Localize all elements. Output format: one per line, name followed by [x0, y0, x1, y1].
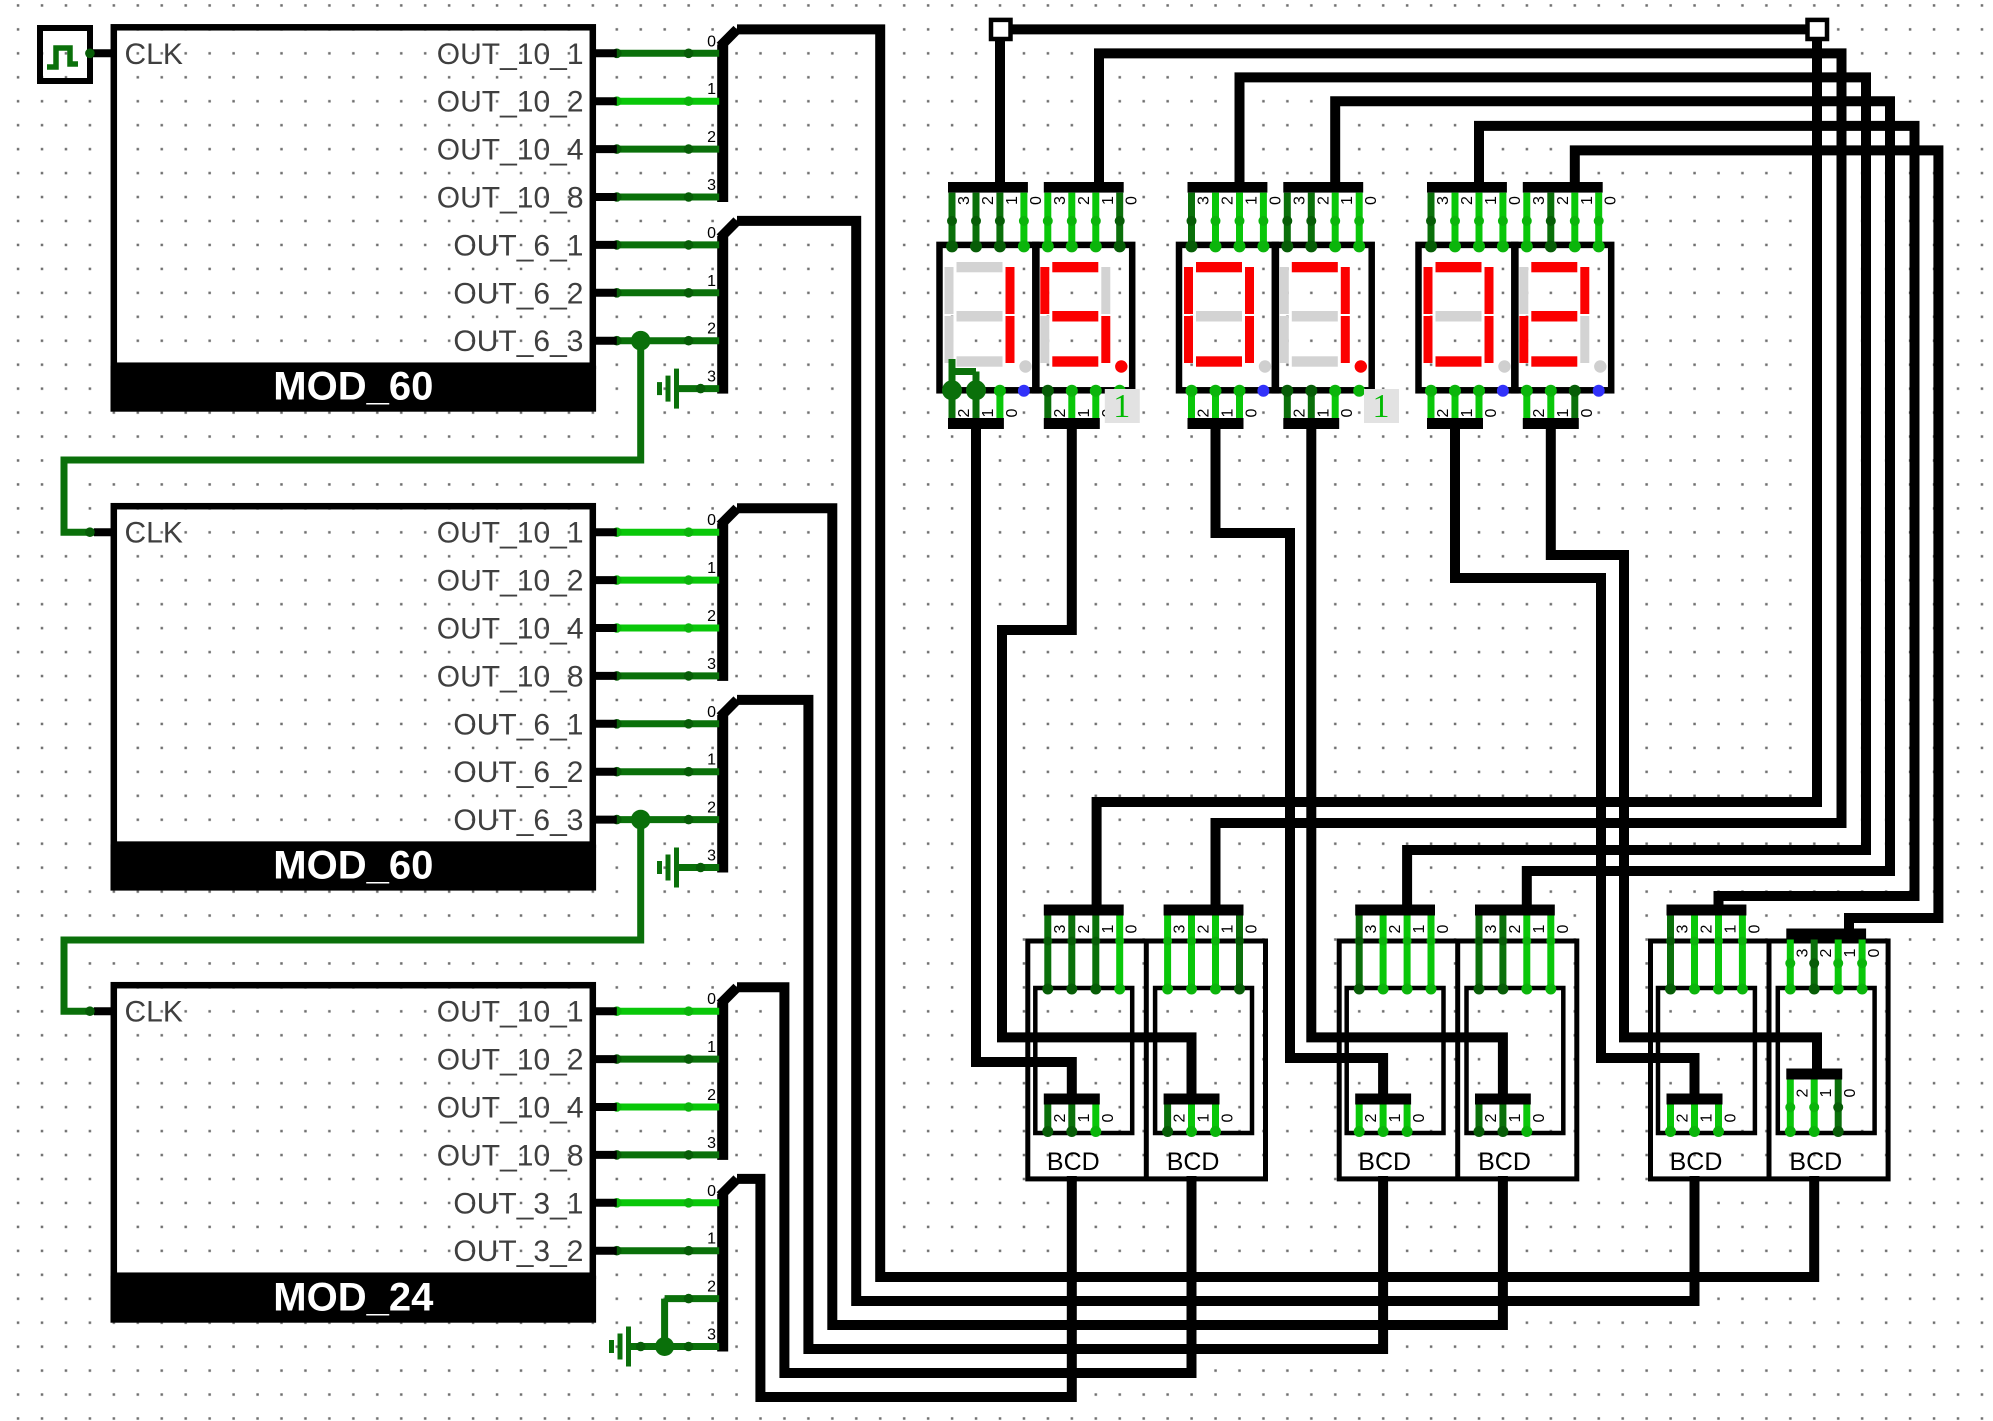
svg-text:2: 2: [1172, 1113, 1189, 1122]
svg-text:1: 1: [1373, 388, 1390, 425]
wire: black CLK stub box3: [94, 1007, 114, 1015]
segment F: [1280, 267, 1289, 314]
bus wire: display DS5 top bar to BCD cell5 top bar: [1479, 126, 1915, 905]
wire: tap 1 into splitter: [617, 1247, 719, 1254]
svg-text:3: 3: [707, 1327, 716, 1344]
wire: DS6 top pin 1: [1571, 193, 1578, 247]
svg-text:0: 0: [1603, 196, 1620, 205]
segment D: [1531, 356, 1577, 366]
wire: BCD2 output bit 1: [1188, 1105, 1195, 1133]
svg-text:2: 2: [980, 196, 997, 205]
wire: DS6 top pin 0: [1595, 193, 1602, 247]
splitter DS4 top input bar: [1283, 182, 1363, 193]
svg-text:2: 2: [1052, 408, 1069, 417]
wire: DS1 bottom pin 2: [949, 388, 956, 418]
svg-text:BCD: BCD: [1167, 1148, 1220, 1176]
wire: DS6 bottom pin 1: [1547, 388, 1554, 418]
junction: DS1 bottom pin 1: [966, 380, 986, 400]
svg-text:BCD: BCD: [1358, 1148, 1411, 1176]
segment B: [1101, 267, 1110, 314]
BCD decoder block pair 3 outline: [1651, 941, 1889, 1179]
svg-text:1: 1: [1842, 948, 1859, 957]
bus wire: splitter S2 (seconds tens) to BCD cell 5 stub: [737, 221, 1695, 1301]
svg-text:2: 2: [707, 129, 716, 146]
splitter DS3 top input bar: [1188, 182, 1268, 193]
wire: BCD6 output bit 2: [1787, 1080, 1794, 1133]
wire: DS1 top pin 3: [949, 193, 956, 247]
segment D: [1196, 356, 1242, 366]
svg-text:OUT_10_2: OUT_10_2: [437, 565, 584, 598]
svg-text:0: 0: [1004, 408, 1021, 417]
svg-text:3: 3: [1483, 924, 1500, 933]
pin stub OUT_10_8: [593, 193, 617, 201]
svg-text:OUT_6_2: OUT_6_2: [453, 756, 583, 789]
wire: MOD_60 #2 OUT_6_3 feedback to MOD_24 CLK: [64, 820, 641, 1012]
wire: BCD5 output bit 1: [1691, 1105, 1698, 1133]
pin stub OUT_10_1: [593, 528, 617, 536]
svg-text:0: 0: [1435, 924, 1452, 933]
wire: tap 0 into splitter: [617, 1008, 719, 1015]
decimal point: [1355, 360, 1367, 372]
svg-text:OUT_6_2: OUT_6_2: [453, 277, 583, 310]
junction: OUT_6_3 node box2: [631, 810, 651, 830]
wire: BCD5 input bit 0: [1739, 916, 1746, 991]
segment B: [1341, 267, 1350, 314]
svg-text:OUT_10_1: OUT_10_1: [437, 996, 584, 1029]
wire: DS5 top pin 3: [1428, 193, 1435, 247]
wire: BCD5 input bit 1: [1715, 916, 1722, 991]
svg-text:1: 1: [1483, 196, 1500, 205]
wire: tap 0 into splitter: [617, 529, 719, 536]
pin stub OUT_6_2: [593, 289, 617, 297]
svg-text:1: 1: [1113, 388, 1130, 425]
splitter DS1 top input bar: [948, 182, 1028, 193]
splitter DS5 top input bar: [1427, 182, 1507, 193]
wire: DS3 top pin 2: [1212, 193, 1219, 247]
splitter DS3 bottom input bar: [1188, 418, 1244, 429]
svg-text:0: 0: [1028, 196, 1045, 205]
wire: DS1 common pins tie: [952, 359, 976, 390]
svg-text:BCD: BCD: [1047, 1148, 1100, 1176]
ground (splitter S4 tap3): [679, 864, 719, 871]
svg-text:OUT_3_1: OUT_3_1: [453, 1187, 583, 1220]
splitter BCD6 top bar: [1786, 929, 1866, 940]
svg-text:2: 2: [1483, 1113, 1500, 1122]
svg-text:1: 1: [1220, 408, 1237, 417]
wire: DS3 bottom pin 1: [1212, 388, 1219, 418]
pin dot: DS4 decimal point input: [1353, 385, 1365, 397]
pin stub OUT_10_8: [593, 672, 617, 680]
svg-text:2: 2: [1387, 924, 1404, 933]
svg-text:1: 1: [1100, 196, 1117, 205]
ground (splitter S2 tap3): [679, 385, 719, 392]
wire: DS6 top pin 2: [1547, 193, 1554, 247]
decimal point: [1259, 360, 1271, 372]
wire: tap 1 into splitter: [617, 289, 719, 296]
wire: BCD4 output bit 0: [1523, 1105, 1530, 1133]
svg-text:0: 0: [1842, 1088, 1859, 1097]
segment F: [1424, 267, 1433, 314]
pin stub OUT_10_2: [593, 576, 617, 584]
svg-text:2: 2: [1363, 1113, 1380, 1122]
7-seg display DS3 (digit 0): [1179, 245, 1276, 390]
svg-text:2: 2: [707, 1279, 716, 1296]
svg-text:0: 0: [1555, 924, 1572, 933]
svg-text:3: 3: [707, 369, 716, 386]
splitter BCD4 top bar: [1475, 905, 1555, 916]
segment G: [1436, 311, 1482, 322]
wire: DS5 bottom pin 2: [1428, 388, 1435, 418]
clock generator CLK1: [40, 28, 90, 81]
svg-text:2: 2: [1076, 196, 1093, 205]
7-seg display DS2 (digit 5): [1035, 245, 1132, 390]
svg-text:2: 2: [1196, 924, 1213, 933]
bus wire: splitter S3 (minutes ones) to BCD cell 4 stub: [737, 508, 1503, 1325]
wire: BCD3 input bit 2: [1380, 916, 1387, 991]
svg-text:0: 0: [1339, 408, 1356, 417]
splitter S3 (MOD_60 #2 OUT_10 bits): [717, 523, 728, 681]
BCD decoder block pair 2 outline: [1339, 941, 1577, 1179]
7-seg display DS5 (digit 0): [1419, 245, 1516, 390]
svg-text:OUT_10_2: OUT_10_2: [437, 86, 584, 119]
segment A: [1531, 262, 1577, 272]
segment F: [945, 267, 954, 314]
svg-text:OUT_10_1: OUT_10_1: [437, 517, 584, 550]
svg-text:2: 2: [1531, 408, 1548, 417]
splitter S5 (MOD_24 OUT_10 bits): [717, 1002, 728, 1160]
wire: tap 3 into splitter: [617, 1151, 719, 1158]
svg-text:BCD: BCD: [1478, 1148, 1531, 1176]
svg-text:2: 2: [1818, 948, 1835, 957]
svg-text:1: 1: [1818, 1088, 1835, 1097]
wire: DS1 top pin 1: [996, 193, 1003, 247]
wire: clock output to MOD_60 #1 CLK pin: [88, 49, 114, 57]
svg-text:2: 2: [1699, 924, 1716, 933]
wire: DS2 bottom pin 1: [1068, 388, 1075, 418]
wire: BCD5 input bit 3: [1667, 916, 1674, 991]
segment F: [1184, 267, 1193, 314]
svg-text:1: 1: [1531, 924, 1548, 933]
segment D: [1052, 356, 1098, 366]
svg-text:1: 1: [1076, 1113, 1093, 1122]
wire: BCD6 input bit 3: [1787, 940, 1794, 991]
segment G: [957, 311, 1003, 322]
svg-text:OUT_6_3: OUT_6_3: [453, 804, 583, 837]
bus wire: display DS1 bottom bar down to BCD cell1 output bar: [976, 429, 1072, 1094]
segment G: [1196, 311, 1242, 322]
svg-text:1: 1: [1339, 196, 1356, 205]
value label 1 (DS2 dp net): [1105, 389, 1140, 423]
pin stub OUT_6_3: [593, 337, 617, 345]
bus wire: display DS6 top bar to BCD cell6 top bar: [1575, 150, 1939, 928]
splitter BCD6 output bar: [1786, 1069, 1842, 1080]
svg-text:OUT_10_1: OUT_10_1: [437, 38, 584, 71]
bus wire: display DS2 top bar to BCD cell2 top bar: [1099, 53, 1842, 904]
wire: DS6 bottom pin 0: [1571, 388, 1578, 418]
segment B: [1485, 267, 1494, 314]
pin dot: DS6 decimal point input: [1593, 385, 1605, 397]
svg-text:2: 2: [1220, 196, 1237, 205]
segment C: [1580, 316, 1589, 363]
wire: BCD1 input bit 2: [1068, 916, 1075, 991]
svg-text:0: 0: [1723, 1113, 1740, 1122]
bus wire: tunnel square A to tunnel square B along top edge: [1010, 24, 1808, 34]
module U1 MOD_60 (seconds counter): [114, 27, 593, 365]
svg-text:0: 0: [1746, 924, 1763, 933]
wire: BCD3 input bit 0: [1428, 916, 1435, 991]
svg-text:0: 0: [707, 512, 716, 529]
wire: tap 0 into splitter: [617, 50, 719, 57]
svg-text:OUT_6_3: OUT_6_3: [453, 325, 583, 358]
wire: DS3 bottom pin 2: [1188, 388, 1195, 418]
tunnel square A: [991, 20, 1011, 39]
segment G: [1052, 311, 1098, 322]
svg-text:0: 0: [1531, 1113, 1548, 1122]
svg-text:OUT_6_1: OUT_6_1: [453, 708, 583, 741]
wire: BCD3 input bit 3: [1356, 916, 1363, 991]
svg-text:1: 1: [1004, 196, 1021, 205]
svg-text:3: 3: [1291, 196, 1308, 205]
pin stub OUT_10_2: [593, 97, 617, 105]
BCD cell 5 inner box: [1658, 988, 1755, 1133]
svg-text:CLK: CLK: [125, 38, 183, 71]
svg-text:1: 1: [1411, 924, 1428, 933]
segment C: [1341, 316, 1350, 363]
pin stub OUT_10_1: [593, 49, 617, 57]
wire: BCD2 input bit 0: [1236, 916, 1243, 991]
wire: DS5 top pin 1: [1476, 193, 1483, 247]
wire: BCD4 output bit 1: [1499, 1105, 1506, 1133]
segment C: [1006, 316, 1015, 363]
svg-text:CLK: CLK: [125, 517, 183, 550]
BCD cell 2 inner box: [1155, 988, 1252, 1133]
svg-text:1: 1: [707, 273, 716, 290]
wire: BCD6 input bit 0: [1859, 940, 1866, 991]
wire: DS2 top pin 2: [1068, 193, 1075, 247]
splitter BCD1 output bar: [1044, 1094, 1100, 1105]
bus wire: display DS4 bottom bar to BCD cell4 output bar: [1311, 429, 1503, 1094]
wire: BCD1 output bit 1: [1068, 1105, 1075, 1133]
wire: tap 3 into splitter: [617, 194, 719, 201]
wire: BCD4 input bit 0: [1547, 916, 1554, 991]
svg-text:1: 1: [1100, 924, 1117, 933]
svg-text:0: 0: [1866, 948, 1883, 957]
wire: BCD4 input bit 3: [1476, 916, 1483, 991]
decimal point: [1019, 360, 1031, 372]
svg-text:MOD_60: MOD_60: [273, 844, 433, 888]
segment B: [1006, 267, 1015, 314]
svg-text:2: 2: [707, 800, 716, 817]
svg-text:2: 2: [707, 1087, 716, 1104]
svg-text:1: 1: [1555, 408, 1572, 417]
svg-text:2: 2: [1435, 408, 1452, 417]
splitter BCD3 top bar: [1355, 905, 1435, 916]
svg-text:0: 0: [707, 704, 716, 721]
bus wire: splitter S6 (hours tens) to BCD cell 1 stub: [737, 1176, 1072, 1397]
wire: BCD1 output bit 2: [1044, 1105, 1051, 1133]
segment D: [1436, 356, 1482, 366]
svg-text:3: 3: [1794, 948, 1811, 957]
svg-text:3: 3: [1675, 924, 1692, 933]
wire: BCD1 input bit 3: [1044, 916, 1051, 991]
BCD cell 1 inner box: [1035, 988, 1132, 1133]
svg-text:OUT_6_1: OUT_6_1: [453, 229, 583, 262]
wire: DS4 bottom pin 0: [1332, 388, 1339, 418]
svg-text:1: 1: [707, 560, 716, 577]
bus wire: display DS3 bottom bar to BCD cell3 output bar: [1216, 429, 1384, 1094]
segment C: [1101, 316, 1110, 363]
segment F: [1040, 267, 1049, 314]
svg-text:1: 1: [1459, 408, 1476, 417]
svg-text:1: 1: [1579, 196, 1596, 205]
wire: tap 2 into splitter: [617, 1104, 719, 1111]
svg-text:1: 1: [1723, 924, 1740, 933]
module U3 MOD_24 (hours counter): [114, 985, 593, 1275]
svg-text:0: 0: [707, 1183, 716, 1200]
wire: tap 2 into splitter: [617, 146, 719, 153]
svg-text:0: 0: [1244, 924, 1261, 933]
wire: BCD5 input bit 2: [1691, 916, 1698, 991]
wire: DS1 top pin 2: [973, 193, 980, 247]
wire: DS5 top pin 0: [1499, 193, 1506, 247]
7-seg display DS1 (digit 1): [940, 245, 1037, 390]
wire: BCD3 output bit 1: [1380, 1105, 1387, 1133]
svg-text:3: 3: [707, 177, 716, 194]
segment E: [1280, 316, 1289, 363]
pin stub OUT_3_2: [593, 1247, 617, 1255]
segment B: [1245, 267, 1254, 314]
wire: BCD6 output bit 1: [1811, 1080, 1818, 1133]
svg-text:2: 2: [1794, 1088, 1811, 1097]
svg-text:0: 0: [707, 33, 716, 50]
bus wire: display DS3 top bar to BCD cell3 top bar: [1240, 77, 1867, 904]
svg-text:0: 0: [707, 225, 716, 242]
wire: DS1 bottom pin 1: [973, 388, 980, 418]
segment E: [945, 316, 954, 363]
segment E: [1184, 316, 1193, 363]
wire: DS3 bottom pin 0: [1236, 388, 1243, 418]
wire: tap 1 into splitter: [617, 98, 719, 105]
svg-text:0: 0: [1100, 1113, 1117, 1122]
splitter DS6 top input bar: [1523, 182, 1603, 193]
wire: tap 2 into splitter: [617, 337, 719, 344]
junction: ground net split: [655, 1337, 674, 1356]
svg-text:OUT_10_4: OUT_10_4: [437, 134, 584, 167]
BCD cell 3 inner box: [1347, 988, 1444, 1133]
svg-text:0: 0: [1124, 924, 1141, 933]
svg-text:MOD_24: MOD_24: [273, 1276, 434, 1320]
bus wire: display DS6 bottom bar to BCD cell6 output bar: [1551, 429, 1817, 1069]
wire: DS2 top pin 1: [1092, 193, 1099, 247]
splitter DS6 bottom input bar: [1523, 418, 1579, 429]
wire: DS2 top pin 3: [1044, 193, 1051, 247]
svg-text:1: 1: [1220, 924, 1237, 933]
wire: DS5 bottom pin 0: [1476, 388, 1483, 418]
svg-text:MOD_60: MOD_60: [273, 365, 433, 409]
bus wire: display DS5 bottom bar to BCD cell5 output bar: [1455, 429, 1695, 1094]
wire: BCD2 input bit 3: [1164, 916, 1171, 991]
svg-text:1: 1: [980, 408, 997, 417]
pin stub OUT_10_4: [593, 1103, 617, 1111]
wire: DS2 bottom pin 0: [1092, 388, 1099, 418]
svg-text:BCD: BCD: [1670, 1148, 1723, 1176]
wire: DS1 bottom pin 0: [996, 388, 1003, 418]
wire: BCD1 input bit 0: [1116, 916, 1123, 991]
segment B: [1580, 267, 1589, 314]
segment C: [1245, 316, 1254, 363]
svg-text:1: 1: [1387, 1113, 1404, 1122]
splitter S1 (MOD_60 #1 OUT_10 bits): [717, 44, 728, 202]
segment E: [1519, 316, 1528, 363]
svg-text:1: 1: [1196, 1113, 1213, 1122]
svg-text:3: 3: [1435, 196, 1452, 205]
7-seg display DS4 (digit 7): [1275, 245, 1372, 390]
wire: BCD6 input bit 2: [1811, 940, 1818, 991]
pin stub OUT_10_4: [593, 145, 617, 153]
splitter BCD5 output bar: [1667, 1094, 1723, 1105]
splitter BCD4 output bar: [1475, 1094, 1531, 1105]
wire: BCD5 output bit 2: [1667, 1105, 1674, 1133]
pin stub OUT_10_4: [593, 624, 617, 632]
svg-text:0: 0: [1363, 196, 1380, 205]
decimal point: [1498, 360, 1510, 372]
junction: OUT_6_3 node box1: [631, 331, 651, 351]
pin dot: DS3 decimal point input: [1257, 385, 1269, 397]
svg-text:0: 0: [707, 991, 716, 1008]
wire: BCD4 output bit 2: [1476, 1105, 1483, 1133]
svg-text:3: 3: [956, 196, 973, 205]
wire: BCD2 output bit 2: [1164, 1105, 1171, 1133]
wire: DS4 bottom pin 2: [1284, 388, 1291, 418]
pin stub OUT_10_1: [593, 1007, 617, 1015]
wire: tap 0 into splitter: [617, 720, 719, 727]
tunnel square B: [1808, 20, 1828, 39]
svg-text:2: 2: [1675, 1113, 1692, 1122]
bus wire: display DS2 bottom bar to BCD cell2 output bar: [1002, 429, 1192, 1094]
wire: BCD6 output bit 0: [1835, 1080, 1842, 1133]
pin stub OUT_10_2: [593, 1055, 617, 1063]
svg-text:0: 0: [1507, 196, 1524, 205]
svg-text:OUT_10_8: OUT_10_8: [437, 182, 584, 215]
pin stub OUT_3_1: [593, 1199, 617, 1207]
bus wire: display DS4 top bar to BCD cell4 top bar: [1335, 101, 1890, 904]
BCD cell 4 inner box: [1467, 988, 1564, 1133]
svg-text:1: 1: [707, 81, 716, 98]
decimal point: [1594, 360, 1606, 372]
svg-text:0: 0: [1411, 1113, 1428, 1122]
segment A: [957, 262, 1003, 272]
segment A: [1196, 262, 1242, 272]
wire: BCD4 input bit 1: [1523, 916, 1530, 991]
BCD cell 6 inner box: [1778, 988, 1875, 1133]
splitter DS2 bottom input bar: [1044, 418, 1100, 429]
svg-text:2: 2: [956, 408, 973, 417]
svg-text:3: 3: [1172, 924, 1189, 933]
svg-text:OUT_10_8: OUT_10_8: [437, 1139, 584, 1172]
pin stub OUT_6_1: [593, 241, 617, 249]
svg-text:3: 3: [1052, 924, 1069, 933]
wire: BCD1 output bit 0: [1092, 1105, 1099, 1133]
pin dot: DS2 decimal point input: [1114, 385, 1126, 397]
splitter BCD3 output bar: [1355, 1094, 1411, 1105]
bus wire: display DS1 top bar up to tunnel square A: [995, 39, 1005, 192]
svg-text:3: 3: [1052, 196, 1069, 205]
splitter DS1 bottom input bar: [948, 418, 1004, 429]
bus wire: tunnel square B down right column, left to BCD cell1 top bar: [1097, 39, 1817, 905]
wire: DS5 top pin 2: [1452, 193, 1459, 247]
module U2 MOD_60 (minutes counter): [114, 506, 593, 844]
wire: tap 1 into splitter: [617, 577, 719, 584]
